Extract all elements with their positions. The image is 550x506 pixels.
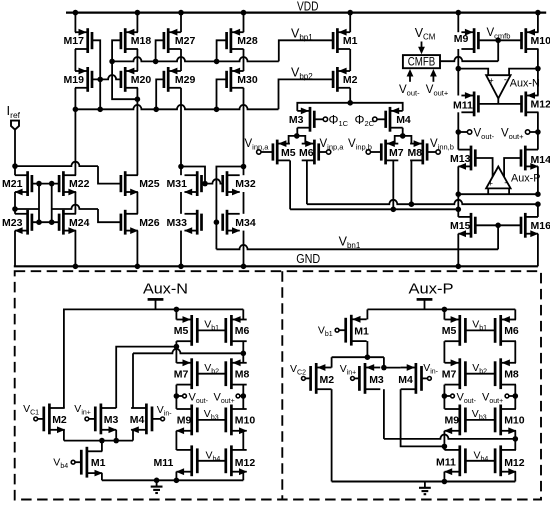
auxN transistor M6	[226, 315, 247, 346]
label M2	[343, 74, 358, 86]
svg-text:M15: M15	[450, 220, 471, 232]
label Vinnb	[430, 138, 454, 152]
svg-text:M34: M34	[235, 217, 256, 229]
transistor M18	[121, 28, 138, 53]
auxP wire M11 source	[443, 472, 445, 482]
transistor M5	[273, 140, 290, 165]
node fold rail left	[456, 191, 462, 197]
label Vout-	[474, 128, 495, 142]
transistor M13	[458, 146, 476, 171]
wire M32 drain to M33-M34 gates	[216, 167, 243, 223]
wire gates link a	[38, 184, 40, 223]
auxN transistor M10	[226, 405, 247, 436]
auxP transistor M4	[401, 363, 422, 394]
wire M8 drain	[410, 160, 412, 204]
wire Vbp1 jog down	[112, 61, 137, 99]
auxP wire Vout- stub	[444, 395, 450, 397]
wire M30 gate	[217, 79, 227, 109]
transistor M31	[184, 171, 202, 196]
auxN wire M5-M7 col	[175, 341, 177, 363]
wire M12 source	[537, 69, 539, 96]
transistor M30	[227, 67, 244, 92]
svg-text:M28: M28	[237, 35, 258, 47]
svg-text:VDD: VDD	[297, 0, 319, 14]
junction GND x243	[241, 264, 247, 270]
auxN supply bar	[148, 299, 164, 309]
transistor M29	[164, 67, 181, 92]
wire M28 gate	[217, 40, 227, 61]
wire M21-M22 gates	[32, 183, 59, 185]
wire Phi2C lead	[377, 118, 386, 120]
terminal Phi1C	[323, 117, 327, 121]
auxN wire M1 source	[101, 473, 103, 480]
auxN top rail	[64, 308, 243, 310]
auxP node M3 fold	[513, 436, 519, 442]
transistor M21	[14, 171, 32, 196]
svg-text:M27: M27	[175, 35, 196, 47]
wire Vbn1	[216, 222, 498, 249]
auxN wire M3 drain W1	[116, 347, 176, 409]
wire VCM arrow	[418, 42, 425, 55]
auxN wire M6 src col	[242, 309, 244, 319]
auxP label Vout-	[457, 391, 477, 405]
auxN label Vb2	[204, 362, 219, 376]
transistor M23	[14, 210, 32, 235]
wire gates to M26 gate	[52, 205, 121, 223]
label M31	[167, 178, 188, 190]
label M29	[175, 74, 196, 86]
auxP wire M12 source	[514, 472, 516, 482]
wire M18 source	[136, 13, 138, 33]
auxN transistor M11	[176, 445, 197, 476]
transistor M4	[386, 107, 403, 132]
svg-text:M3: M3	[104, 414, 119, 426]
wire pairA tail	[289, 136, 306, 144]
node gate c	[36, 219, 42, 225]
wire Vout- arrow into CMFB	[407, 69, 414, 82]
auxN wire M10-M12 col	[242, 431, 244, 450]
auxP label Vb4	[474, 449, 489, 463]
svg-text:M3: M3	[289, 114, 304, 126]
wire M11 source	[457, 69, 459, 96]
auxN node Vout- col	[174, 393, 180, 399]
auxN label Vb4	[206, 449, 221, 463]
wire Iref to M25 gate	[15, 162, 121, 184]
auxP label VC2	[290, 363, 306, 377]
transistor M28	[227, 28, 244, 53]
auxP label M12	[504, 457, 525, 469]
label Vbp2	[291, 66, 313, 82]
auxP transistor M11	[444, 445, 465, 476]
dashed box outer	[15, 271, 541, 499]
auxN node Vout+ col	[241, 393, 247, 399]
auxP label M2	[320, 374, 335, 386]
label Vinna	[245, 138, 270, 152]
svg-text:M9: M9	[177, 415, 192, 427]
auxP wire M2 drain down	[331, 389, 333, 481]
label Vout- cmfb	[399, 84, 420, 98]
auxN terminal VC1	[34, 417, 38, 421]
auxN label M11	[154, 457, 174, 469]
transistor M22	[59, 171, 77, 196]
terminal Phi2C	[373, 117, 377, 121]
auxN transistor M5	[176, 315, 197, 346]
wire M29 gate	[156, 79, 164, 109]
auxN node W2	[241, 351, 247, 357]
op-amp Aux-N	[486, 74, 511, 98]
label M33	[167, 217, 188, 229]
auxP label Vin+	[340, 363, 357, 377]
auxN Vb1 wire	[197, 329, 226, 331]
auxN label Vb3	[204, 408, 219, 422]
wire M16 source	[537, 234, 539, 267]
auxN wire VC1 lead	[38, 418, 44, 420]
node Vbp2 M30gate	[214, 107, 220, 113]
auxN label Vb1	[204, 319, 219, 333]
auxN wire M4 drain W2	[133, 349, 243, 408]
auxP transistor M12	[495, 445, 516, 476]
svg-text:Aux-N: Aux-N	[510, 78, 540, 90]
auxN wire Vout+ stub	[240, 395, 243, 397]
wire M31src-M33drain	[180, 192, 182, 214]
auxN label M5	[174, 325, 189, 337]
wire M16 drain	[537, 204, 539, 217]
auxP label Vout+	[482, 391, 503, 405]
terminal Vout-	[467, 130, 471, 134]
svg-text:+: +	[488, 179, 493, 188]
auxN terminal Vout+	[236, 394, 240, 398]
auxP label M3	[369, 374, 384, 386]
svg-text:M5: M5	[174, 325, 189, 337]
auxP transistor M5	[445, 315, 466, 346]
auxP top rail	[367, 308, 515, 310]
wire M27 gate	[156, 40, 164, 61]
wire auxP in left	[487, 188, 489, 194]
transistor M14	[521, 146, 539, 171]
auxP wire Vout+ stub	[509, 395, 515, 397]
auxP wire M3M4 src	[383, 357, 385, 367]
wire Vinna lead	[261, 151, 273, 153]
label Aux-P amp	[511, 172, 540, 184]
auxN wire Vin+ lead	[89, 418, 96, 420]
label M3	[289, 114, 304, 126]
auxP label M7	[442, 369, 457, 381]
auxN wire M7 drain col	[175, 385, 177, 409]
auxP node M11 src	[442, 479, 448, 485]
wire M19 drain	[74, 88, 76, 110]
svg-text:M2: M2	[52, 414, 67, 426]
svg-text:Aux-P: Aux-P	[409, 281, 454, 298]
wire fold upper	[307, 200, 538, 204]
label M24	[69, 217, 90, 229]
auxP wire Vin+ lead	[354, 377, 359, 379]
auxP label Vb3	[472, 408, 487, 422]
node M15-M16 gates	[495, 223, 501, 229]
wire M1 drain to M2	[349, 49, 351, 71]
svg-text:M12: M12	[531, 99, 550, 111]
svg-text:M24: M24	[69, 217, 90, 229]
label Vout+ cmfb	[426, 84, 449, 98]
wire Vout- stub	[458, 131, 467, 133]
transistor M33	[184, 210, 202, 235]
wire M22 drain	[74, 109, 76, 175]
auxP label M9	[445, 415, 460, 427]
auxN wire Vin- lead	[152, 418, 161, 420]
auxN label M3in	[104, 414, 119, 426]
label M32	[235, 178, 256, 190]
auxN label M12	[235, 457, 256, 469]
junction VDD x458	[456, 10, 462, 16]
svg-text:M2: M2	[320, 374, 335, 386]
wire Vbp1 to M1 gate	[279, 40, 333, 61]
auxP transistor M2	[311, 363, 332, 394]
auxN node M3 src	[113, 438, 119, 444]
wire M18 gate	[112, 40, 121, 61]
auxP label M5	[442, 325, 457, 337]
label M19	[64, 74, 85, 86]
wire M9 source	[457, 13, 459, 33]
wire auxN in left	[458, 69, 488, 76]
dashed divider	[281, 271, 283, 499]
svg-text:M31: M31	[167, 178, 188, 190]
svg-text:M10: M10	[504, 415, 525, 427]
node M10 drain	[535, 66, 541, 72]
wire auxN in right	[509, 69, 538, 76]
wire Vinpa lead	[319, 151, 327, 153]
auxN tail rail	[64, 440, 133, 442]
svg-text:Aux-N: Aux-N	[143, 281, 188, 298]
auxN wire M8 drain col	[242, 385, 244, 409]
label Vinpa	[320, 138, 345, 152]
auxN wire M1 drain	[101, 441, 103, 452]
wire M27 drain to M29	[180, 49, 182, 71]
wire M3-M4 source rail	[297, 103, 402, 111]
VDD rail	[66, 12, 546, 14]
wire M12 drain	[537, 112, 539, 132]
auxP terminal Vin-	[428, 377, 432, 381]
auxP terminal Vin+	[351, 377, 355, 381]
svg-text:-: -	[504, 178, 507, 188]
auxN label M9	[177, 415, 192, 427]
wire M19-M20 gate	[92, 75, 121, 79]
wire M14 gate	[504, 158, 521, 177]
terminal Vinpb	[366, 150, 370, 154]
node M8 fold	[409, 201, 415, 207]
wire M30 drain down	[243, 88, 245, 175]
transistor M8	[410, 140, 427, 165]
auxN transistor M7	[176, 358, 197, 389]
wire Phi1C lead	[314, 118, 323, 120]
wire Vinpb lead	[370, 151, 381, 153]
auxP wire M8 drain col	[514, 385, 516, 409]
svg-text:M16: M16	[531, 220, 550, 232]
auxP node M1 drain	[365, 354, 371, 360]
svg-text:Aux-P: Aux-P	[511, 172, 540, 184]
transistor M11	[461, 92, 478, 117]
node M31 gate diode	[202, 181, 208, 187]
label M16	[531, 220, 550, 232]
auxP label M4	[398, 374, 413, 386]
node pairB tail	[400, 133, 406, 139]
node gate d	[49, 219, 55, 225]
svg-text:M26: M26	[139, 217, 160, 229]
auxN transistor M3in	[95, 404, 116, 435]
auxN label M4in	[130, 414, 145, 426]
wire M24 source	[74, 231, 76, 267]
junction VDD x350	[347, 10, 353, 16]
node Vcmfb	[495, 38, 501, 44]
wire M15 source	[457, 234, 459, 267]
node M21 source tap	[12, 206, 18, 212]
wire M31 diode link	[181, 167, 205, 184]
wire M14 source	[537, 166, 539, 194]
auxN Vb2 wire	[197, 373, 226, 375]
transistor M26	[121, 210, 138, 235]
auxN label M8	[235, 369, 250, 381]
wire M10 drain	[537, 49, 539, 69]
auxP wire M9-M11 col	[443, 431, 445, 450]
auxP gnd rail	[332, 481, 516, 483]
auxP terminal Vout-	[451, 394, 455, 398]
wire M17 source	[74, 13, 76, 33]
transistor M25	[121, 171, 138, 196]
svg-text:M4: M4	[398, 374, 413, 386]
transistor M2	[333, 67, 350, 92]
auxP wire Vin- lead	[422, 377, 428, 379]
auxN label M2	[52, 414, 67, 426]
auxN transistor M2	[44, 404, 65, 435]
svg-text:M32: M32	[235, 178, 256, 190]
junction GND x458	[456, 264, 462, 270]
auxN wire M2 drain up	[63, 309, 65, 408]
junction VDD x181	[178, 10, 184, 16]
svg-text:M9: M9	[445, 415, 460, 427]
transistor M32	[223, 171, 241, 196]
auxP wire M3 drain fold	[384, 389, 515, 439]
terminal Vinnb	[436, 150, 440, 154]
auxN wire M3 src	[115, 430, 117, 441]
node Vbp1 M27gate	[153, 59, 159, 65]
auxN ground	[151, 480, 163, 493]
wire M3 drain	[296, 128, 298, 136]
auxP transistor M9	[444, 405, 465, 436]
port Iref	[11, 121, 19, 130]
auxN wire M2 src	[63, 430, 65, 441]
wire M13 gate	[475, 158, 492, 177]
label VCM	[415, 26, 436, 42]
svg-text:M6: M6	[235, 325, 250, 337]
auxP label M6	[504, 325, 519, 337]
wire auxN out	[497, 98, 499, 104]
terminal Vinpa	[326, 150, 330, 154]
wire Vcmfb gates	[478, 39, 521, 41]
auxN terminal Vb4 in	[71, 460, 75, 464]
label M1	[343, 35, 358, 47]
wire Vout+ stub	[530, 131, 538, 133]
svg-text:M25: M25	[139, 178, 160, 190]
auxP wire M2 src	[331, 357, 333, 367]
auxP wire M4 drain fold	[401, 389, 445, 446]
wire M5 drain	[289, 160, 291, 209]
label M5	[281, 147, 296, 159]
auxP terminal Vout+	[505, 394, 509, 398]
block CMFB	[403, 55, 440, 68]
VDD label	[297, 0, 319, 14]
label M12	[531, 99, 550, 111]
auxP transistor M6	[495, 315, 516, 346]
auxP Vb4 wire	[465, 460, 495, 462]
node M7 fold	[391, 207, 397, 213]
node M29 drain to M31	[178, 164, 184, 170]
wire Vout- to M13	[457, 132, 459, 150]
wire M28 source	[243, 13, 245, 33]
wire auxP in right	[508, 188, 510, 194]
node Vbp1 start	[109, 59, 115, 65]
wire M11-M12 gates	[478, 103, 521, 105]
auxP wire M7 drain col	[443, 385, 445, 409]
auxP wire M10-M12 col	[514, 431, 516, 450]
svg-text:M7: M7	[442, 369, 457, 381]
auxP transistor M8	[495, 358, 516, 389]
transistor M7	[381, 140, 398, 165]
transistor M10	[522, 28, 539, 53]
node gate a	[36, 181, 42, 187]
wire fold rail	[458, 193, 538, 195]
node tail a	[347, 100, 353, 106]
wire pairB tail	[395, 136, 412, 144]
label M21	[2, 178, 23, 190]
label M13	[450, 153, 471, 165]
wire Vbp1 rail	[112, 57, 279, 61]
auxN label M10	[235, 415, 256, 427]
title Aux-N	[143, 281, 188, 298]
node fold rail right	[535, 191, 541, 197]
junction VDD x75	[73, 10, 79, 16]
wire M18 drain to M20	[136, 49, 138, 71]
junction GND x75	[73, 264, 79, 270]
junction GND x137	[135, 264, 141, 270]
auxN node M11 src	[174, 478, 180, 484]
auxN node gnd tap	[154, 478, 160, 484]
auxP transistor M7	[445, 358, 466, 389]
auxP wire M5 src col	[443, 309, 445, 319]
wire Vbp2 rail	[75, 105, 279, 109]
label Phi2C	[355, 113, 375, 128]
auxP node pair src	[381, 365, 387, 371]
svg-text:M1: M1	[354, 325, 369, 337]
svg-text:+: +	[489, 76, 494, 85]
auxN wire M11 source	[175, 472, 177, 481]
label M6	[299, 147, 314, 159]
node M30 drain to M32	[241, 164, 247, 170]
wire M29 drain down	[180, 88, 182, 175]
transistor M6	[302, 140, 319, 165]
auxN gnd rail	[102, 479, 243, 481]
transistor M34	[223, 210, 241, 235]
transistor M17	[75, 28, 92, 53]
auxP label Vb1 in	[318, 325, 333, 339]
auxP wire VC2 lead	[305, 377, 310, 379]
svg-text:M2: M2	[343, 74, 358, 86]
auxP wire M6 src col	[514, 309, 516, 319]
wire M22src-M24drain	[74, 192, 76, 214]
auxN wire M5 src col	[175, 309, 177, 319]
label M34	[235, 217, 256, 229]
auxP wire M4 lead ext	[384, 367, 401, 369]
auxN transistor M9	[176, 405, 197, 436]
auxN Vb3 wire	[197, 419, 226, 421]
svg-text:M1: M1	[91, 457, 106, 469]
